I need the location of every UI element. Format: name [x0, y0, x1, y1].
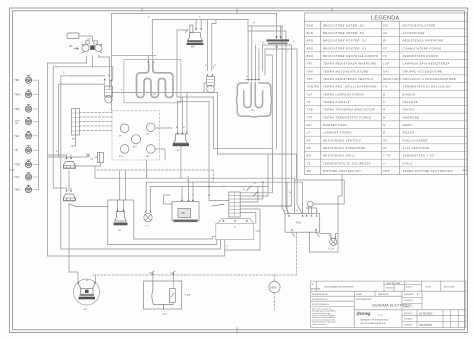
- svg-text:CA: CA: [90, 158, 94, 161]
- svg-text:B.I: B.I: [417, 294, 420, 296]
- svg-text:MODELLO: MODELLO: [386, 288, 395, 290]
- svg-text:DENOMINAZIONE: DENOMINAZIONE: [356, 298, 372, 301]
- svg-text:RESISTENZA SUPERIORE: RESISTENZA SUPERIORE: [323, 146, 365, 150]
- wire lamp1 feed right: [53, 67, 113, 81]
- svg-text:CASINALBO DI FORMIGINE (MO): CASINALBO DI FORMIGINE (MO): [360, 318, 388, 321]
- wire right column c: [240, 45, 291, 206]
- svg-text:TTF: TTF: [307, 115, 313, 119]
- svg-text:BAS: BAS: [307, 31, 314, 35]
- svg-text:TERMOSTATO T 70°: TERMOSTATO T 70°: [403, 154, 436, 158]
- wire grill bar feeds: [277, 14, 281, 149]
- svg-text:GRUPPO ACCENDITORE: GRUPPO ACCENDITORE: [403, 69, 443, 73]
- svg-text:TERRA LAMPADA FORNO: TERRA LAMPADA FORNO: [323, 92, 365, 96]
- svg-text:s.p.a.: s.p.a.: [378, 315, 383, 317]
- commutator CF dashed box: [112, 111, 160, 160]
- wire MV terminal drops: [196, 20, 201, 30]
- wire lamp40 hookup: [320, 234, 338, 238]
- svg-text:TS: TS: [307, 161, 311, 165]
- wire ground bus: [38, 80, 40, 190]
- wire PLO top small circle: [295, 180, 345, 214]
- fan heating element RV (left meander): [124, 60, 181, 103]
- svg-text:REVISIONE: REVISIONE: [311, 289, 321, 291]
- wire fan element drops: [149, 55, 153, 61]
- svg-text:RESISTENZA INFERIORE: RESISTENZA INFERIORE: [403, 39, 444, 43]
- wire igniter2 feeds: [53, 188, 71, 191]
- svg-text:BIANCO: BIANCO: [403, 92, 416, 96]
- wire bottom bus B1: [134, 237, 216, 239]
- wire lower mid bus N2: [146, 182, 302, 213]
- svg-text:RS: RS: [15, 123, 19, 125]
- wire legend drop: [309, 175, 342, 253]
- svg-text:BCD: BCD: [307, 54, 314, 58]
- svg-text:N: N: [383, 123, 385, 127]
- motoventilatore MV: [185, 25, 203, 45]
- svg-text:MC: MC: [118, 230, 122, 232]
- svg-text:RG: RG: [307, 154, 312, 158]
- wire mid bus drops right: [178, 93, 229, 201]
- LEGEND TABLE: [305, 13, 468, 175]
- wire lamp LF risers: [146, 182, 150, 211]
- middle: [354, 295, 402, 297]
- wire U-box motor terms: [118, 170, 126, 212]
- wire GAI left link: [164, 195, 173, 204]
- oven lamp LF: [144, 211, 152, 222]
- wire trapezoid base drop: [180, 146, 182, 178]
- svg-text:RESTITUIRE: RESTITUIRE: [444, 286, 455, 288]
- svg-text:CF: CF: [383, 46, 387, 50]
- indicator circle LSP: [307, 201, 313, 207]
- ignition candle lamp2: [206, 74, 214, 93]
- svg-text:VISTO: VISTO: [404, 306, 410, 308]
- svg-text:TRG/RS: TRG/RS: [307, 85, 320, 89]
- svg-text:MV: MV: [191, 46, 195, 49]
- svg-text:TERMOSTATO DI SICUREZZA: TERMOSTATO DI SICUREZZA: [323, 161, 371, 165]
- lower middle / right: [402, 315, 466, 317]
- svg-text:ALTA TENSIONE: ALTA TENSIONE: [402, 146, 430, 150]
- svg-text:DISEGNO: DISEGNO: [404, 325, 412, 327]
- oven burner candle pedestal: [173, 132, 189, 146]
- svg-text:T 70°: T 70°: [383, 154, 392, 158]
- wire right column e: [267, 55, 273, 178]
- svg-text:R: R: [383, 131, 385, 135]
- svg-text:TRI: TRI: [307, 62, 313, 66]
- svg-text:RV: RV: [307, 138, 312, 142]
- wire strip fan levers: [212, 186, 258, 206]
- svg-text:MO: MO: [307, 123, 313, 127]
- svg-text:IN SCALA: IN SCALA: [404, 318, 413, 321]
- svg-text:TERMOSTATO FORNO: TERMOSTATO FORNO: [403, 54, 439, 58]
- row1: [311, 290, 466, 292]
- CF contact IA2: [146, 145, 155, 154]
- smeg logo: [356, 311, 388, 325]
- svg-text:RESISTENZA GRILL: RESISTENZA GRILL: [323, 154, 356, 158]
- wire T70 riser1: [152, 275, 154, 281]
- svg-text:MORSETTIERA: MORSETTIERA: [323, 123, 347, 127]
- svg-text:TERRA MOTOVENTILATORE: TERRA MOTOVENTILATORE: [323, 69, 369, 73]
- svg-text:LSP: LSP: [383, 62, 389, 66]
- svg-text:ROSSO: ROSSO: [403, 131, 415, 135]
- CF contact RC2: [131, 135, 140, 144]
- clock programmer P.LO box: [285, 214, 320, 233]
- wire CA feeds: [48, 157, 101, 166]
- CF contact IP2: [146, 123, 155, 132]
- wire second lamp feed: [59, 84, 104, 157]
- wire mid bus M3: [178, 100, 209, 102]
- svg-text:TMC: TMC: [14, 188, 21, 192]
- svg-text:SOSTITUISCE DIS.: SOSTITUISCE DIS.: [312, 299, 328, 301]
- svg-text:LAMPADA FORNO: LAMPADA FORNO: [323, 131, 352, 135]
- wire cluster to right riser: [99, 55, 110, 89]
- wire meander feed left corner: [263, 45, 266, 75]
- svg-text:RICHIESTA DA DIS.: RICHIESTA DA DIS.: [312, 293, 329, 296]
- svg-text:NERO: NERO: [403, 123, 413, 127]
- svg-text:COMMUTATORE FORNO: COMMUTATORE FORNO: [403, 46, 442, 50]
- svg-text:CELESTE: CELESTE: [403, 100, 418, 104]
- wire right column a: [282, 26, 285, 214]
- ground terminal TRV: [25, 105, 38, 113]
- svg-text:LEGENDA: LEGENDA: [371, 16, 400, 22]
- wire top bus L2: [112, 20, 249, 56]
- svg-text:GIALLO-VERDE: GIALLO-VERDE: [403, 138, 428, 142]
- svg-text:V: V: [383, 161, 385, 165]
- wire dashed GF2A drop: [274, 275, 276, 310]
- svg-text:TMC: TMC: [383, 169, 390, 173]
- svg-text:BRUCIATORE ANTER. SX: BRUCIATORE ANTER. SX: [323, 31, 364, 35]
- svg-text:TTB: TTB: [14, 163, 20, 167]
- svg-text:TF: TF: [383, 54, 387, 58]
- svg-text:MOTOVENTILATORE: MOTOVENTILATORE: [403, 23, 436, 27]
- svg-text:MO: MO: [72, 139, 76, 141]
- svg-text:TRG: TRG: [15, 120, 20, 122]
- wire meander1 terminal stubs: [149, 62, 153, 66]
- svg-text:AC: AC: [382, 31, 388, 35]
- relay circle GF2A: [269, 281, 280, 292]
- svg-text:BRUCIATORE POSTER. SX: BRUCIATORE POSTER. SX: [323, 46, 367, 50]
- wire bottom bus B2: [108, 240, 217, 245]
- mains plug: [216, 218, 254, 239]
- switch CA: [87, 153, 104, 163]
- wire dashed MO-CF links: [79, 113, 112, 131]
- svg-text:CONTROLL.: CONTROLL.: [404, 300, 414, 302]
- svg-text:SOSTITUITA DA DIS.: SOSTITUITA DA DIS.: [312, 303, 330, 306]
- svg-text:RS: RS: [275, 47, 279, 49]
- grill bar resistance RS: [267, 37, 290, 45]
- svg-text:C: C: [383, 100, 385, 104]
- svg-text:GAI: GAI: [181, 212, 185, 215]
- svg-text:DENOMINAZIONE-REVISIONE: DENOMINAZIONE-REVISIONE: [324, 285, 354, 288]
- svg-text:BRUCIATORE CENTRALE DOPPIO: BRUCIATORE CENTRALE DOPPIO: [323, 54, 379, 58]
- wire bottom bus B3: [61, 240, 221, 249]
- svg-text:BPD: BPD: [307, 39, 314, 43]
- svg-text:RESISTENZA VENTOLA: RESISTENZA VENTOLA: [323, 138, 361, 142]
- svg-text:BPS: BPS: [307, 46, 314, 50]
- svg-text:VIOLA: VIOLA: [403, 161, 413, 165]
- wire lower mid bus N1: [95, 160, 295, 213]
- wire bottom bus B4: [48, 240, 225, 256]
- wire GAI risers: [182, 178, 193, 201]
- svg-text:RG: RG: [251, 110, 255, 112]
- wire top bus L1: [112, 13, 277, 15]
- svg-text:TRI: TRI: [14, 78, 19, 82]
- wire bulb2 label stub: [204, 83, 206, 93]
- wire lamp1 feed left: [61, 75, 105, 77]
- CF contact IPU: [120, 145, 129, 154]
- svg-text:GAI: GAI: [383, 69, 389, 73]
- svg-text:9X0715454: 9X0715454: [419, 323, 433, 327]
- svg-text:MC: MC: [84, 309, 88, 311]
- svg-text:IPU: IPU: [119, 156, 123, 158]
- svg-text:B: B: [383, 92, 385, 96]
- ground terminal TRG/RS: [25, 117, 38, 125]
- svg-text:MV: MV: [383, 23, 388, 27]
- igniter candle left1: [64, 157, 76, 169]
- terminal strip MO: [72, 109, 80, 136]
- junction dots: [209, 182, 263, 195]
- thermostat T70 box: [144, 273, 182, 310]
- ground terminal TTF: [25, 173, 38, 181]
- wire dashed mid line: [97, 170, 214, 182]
- wire right column d: [265, 49, 300, 209]
- svg-text:QUALITA': QUALITA': [386, 282, 394, 285]
- wire bulb2 drops: [208, 20, 216, 71]
- ground terminal TTB: [25, 160, 38, 168]
- wire CF to trapezoid links: [155, 128, 172, 160]
- ignition group GAI: [172, 199, 199, 222]
- svg-text:MODELLO: MODELLO: [404, 313, 413, 315]
- wire gas cluster tails: [48, 56, 93, 67]
- wire MO strip drop: [72, 135, 76, 146]
- centrifugal fan MC: [74, 279, 100, 305]
- wire igniter1 feeds: [48, 155, 71, 159]
- TITLE BLOCK: [311, 281, 466, 327]
- igniter candle left2: [64, 190, 76, 202]
- svg-text:AC: AC: [69, 45, 73, 48]
- svg-text:ACCENSIONE: ACCENSIONE: [402, 31, 425, 35]
- svg-text:TERRA MOTORE CENTRIFUGO: TERRA MOTORE CENTRIFUGO: [403, 169, 454, 173]
- ignition candle lamp1: [104, 78, 113, 103]
- wire mid bus M1: [112, 92, 218, 94]
- svg-text:TLF: TLF: [14, 134, 20, 138]
- wire PLO bottom levers: [292, 229, 319, 237]
- wire right column b: [286, 31, 289, 214]
- svg-text:L1-40: L1-40: [329, 249, 335, 251]
- pushbutton ACC rectangle: [67, 33, 79, 39]
- wire left outer drop: [111, 14, 113, 111]
- svg-text:LF-B: LF-B: [162, 314, 167, 316]
- svg-text:TP: TP: [307, 100, 311, 104]
- wire igniter2 bottom drop: [69, 204, 108, 282]
- wire U-box: [108, 200, 134, 245]
- wire grill element terminal drops: [248, 26, 259, 79]
- svg-text:OROLOGIO A PROGRAMMATORE: OROLOGIO A PROGRAMMATORE: [403, 77, 457, 81]
- wire dashed PLO drop: [296, 232, 298, 275]
- svg-text:TERRA PIANALE: TERRA PIANALE: [323, 100, 350, 104]
- svg-text:TS: TS: [383, 85, 387, 89]
- svg-text:VIA CIRCONVALLAZIONE N.36: VIA CIRCONVALLAZIONE N.36: [360, 322, 386, 325]
- svg-text:MC: MC: [307, 169, 312, 173]
- svg-text:TERRA RESISTENZA VENTOLA: TERRA RESISTENZA VENTOLA: [323, 77, 374, 81]
- wire lower mid bus N3: [150, 186, 268, 188]
- CF contact IP1: [120, 124, 129, 133]
- svg-text:A MODI: A MODI: [406, 285, 412, 288]
- ground terminal TP: [25, 146, 38, 154]
- wire top bus L3: [248, 20, 286, 32]
- ground terminal TMV: [25, 90, 38, 98]
- connector strip: [229, 192, 240, 217]
- svg-text:TERRA TERMOSTATO FORNO: TERRA TERMOSTATO FORNO: [323, 115, 372, 119]
- svg-text:GV: GV: [383, 138, 388, 142]
- svg-text:LAMPADA SPIA RESISTENZA: LAMPADA SPIA RESISTENZA: [403, 62, 450, 66]
- left column: [353, 291, 355, 327]
- svg-text:BAD: BAD: [307, 23, 314, 27]
- wire mid bus M2: [177, 30, 214, 97]
- svg-text:TLF: TLF: [307, 92, 313, 96]
- svg-text:TERRA RES. GRILL+SUPERIORE: TERRA RES. GRILL+SUPERIORE: [323, 85, 377, 89]
- svg-text:AT: AT: [382, 146, 387, 150]
- svg-text:TRV: TRV: [307, 77, 314, 81]
- svg-text:GF2A: GF2A: [270, 285, 277, 289]
- svg-text:TP: TP: [14, 148, 18, 152]
- svg-text:☰smeg: ☰smeg: [356, 311, 371, 316]
- wire MC risers: [94, 275, 96, 282]
- svg-text:TTF: TTF: [14, 175, 20, 179]
- wire pushbutton link: [79, 36, 93, 42]
- svg-text:RI: RI: [383, 39, 387, 43]
- crossing marks on dashed bottom line: [151, 271, 175, 274]
- svg-text:TRV: TRV: [14, 107, 20, 111]
- wire strip right fan: [214, 149, 297, 250]
- svg-text:MARRONE: MARRONE: [403, 115, 420, 119]
- svg-text:M: M: [383, 115, 386, 119]
- svg-text:TMV: TMV: [14, 93, 20, 97]
- motor in U-box: [114, 209, 128, 225]
- svg-text:DISEGNATO: DISEGNATO: [404, 293, 414, 296]
- wire igniter1 bottom drop: [68, 171, 70, 192]
- ground terminal TRI: [25, 76, 38, 84]
- wire T70 riser2: [172, 275, 174, 281]
- ground terminal TLF: [25, 131, 38, 139]
- gas tap cluster AC: [74, 41, 102, 53]
- wire dashed bottom line: [93, 274, 297, 276]
- svg-text:TTB: TTB: [307, 108, 313, 112]
- ground terminal TMC: [25, 185, 38, 193]
- svg-text:RS: RS: [307, 146, 312, 150]
- svg-text:MOTORE CENTRIFUGO: MOTORE CENTRIFUGO: [323, 169, 361, 173]
- svg-text:TERRA RESISTENZA INFERIORE: TERRA RESISTENZA INFERIORE: [323, 62, 377, 66]
- svg-text:P.LO: P.LO: [296, 222, 301, 225]
- svg-text:TERMOSTATO DI ESCLUSION: TERMOSTATO DI ESCLUSION: [403, 85, 451, 89]
- svg-text:TMV: TMV: [307, 69, 314, 73]
- wire PLO pin diagonals: [286, 207, 317, 214]
- wire plug right drop: [256, 230, 260, 232]
- svg-text:RC2: RC2: [133, 147, 138, 149]
- grill+upper element RG/RS (right meander): [237, 79, 272, 117]
- svg-text:BRUCIATORE ANTER. DX: BRUCIATORE ANTER. DX: [323, 23, 364, 27]
- svg-text:LR 9D MF3: LR 9D MF3: [419, 311, 433, 315]
- svg-text:GRIGIO: GRIGIO: [403, 108, 416, 112]
- svg-text:FIRME: FIRME: [356, 294, 362, 296]
- svg-text:LF: LF: [307, 131, 311, 135]
- spia lamp L1-40: [330, 237, 337, 246]
- svg-text:TERRA TRAVERSA BRUCIATORI: TERRA TRAVERSA BRUCIATORI: [323, 108, 375, 112]
- svg-text:G: G: [383, 108, 386, 112]
- svg-text:OROLOGIO: OROLOGIO: [383, 77, 402, 81]
- svg-text:BRUCIATORE POSTER. DX: BRUCIATORE POSTER. DX: [323, 39, 367, 43]
- svg-text:T 70°: T 70°: [185, 293, 191, 297]
- wire gas bus verticals: [48, 63, 61, 256]
